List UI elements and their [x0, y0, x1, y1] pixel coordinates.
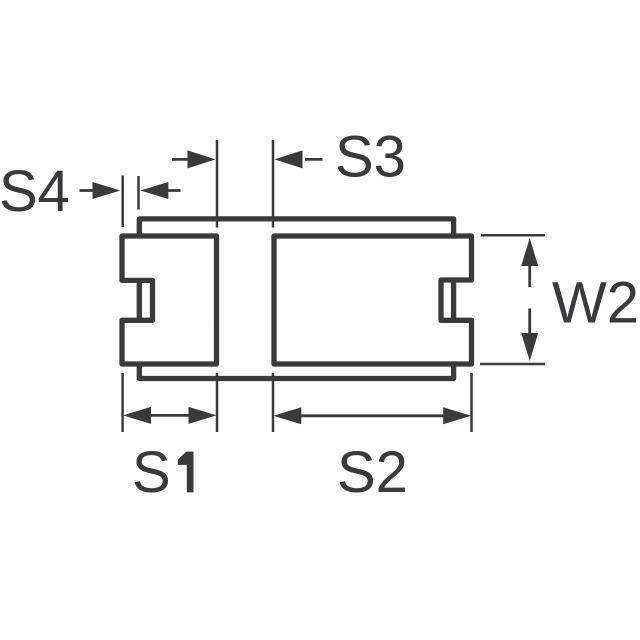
- svg-text:W2: W2: [552, 271, 639, 336]
- right pad P2: [274, 236, 472, 364]
- extension line S2 left bottom: [272, 373, 275, 432]
- component body outline: [139, 219, 453, 379]
- extension line S1 left bottom: [121, 373, 124, 432]
- extension line S4 left: [121, 176, 124, 228]
- svg-text:S2: S2: [337, 440, 408, 505]
- label S1: [132, 440, 194, 505]
- svg-text:S3: S3: [335, 125, 406, 190]
- extension line S1 right bottom: [216, 373, 219, 432]
- extension line W2 bottom: [480, 363, 545, 366]
- svg-text:S: S: [132, 440, 171, 505]
- dimension S3 arrows: [172, 150, 323, 168]
- dimension W2 arrows: [521, 238, 538, 361]
- extension line S4 right: [137, 176, 140, 210]
- extension line W2 top: [481, 234, 545, 237]
- dimension S4 arrows: [80, 182, 181, 199]
- svg-text:S4: S4: [0, 159, 70, 224]
- left pad P1: [122, 236, 217, 364]
- dimension S1 arrows: [123, 407, 217, 424]
- dimension S2 arrows: [273, 407, 471, 424]
- extension line S3 left: [216, 140, 219, 228]
- extension line S3 right: [272, 140, 275, 228]
- extension line S2 right bottom: [470, 373, 473, 432]
